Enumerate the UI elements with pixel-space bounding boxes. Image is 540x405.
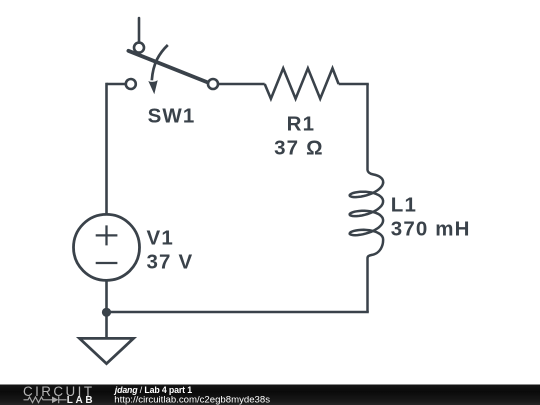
wire V1 bottom to junction xyxy=(105,280,108,312)
inductor L1 with leads xyxy=(350,84,384,312)
svg-text:http://circuitlab.com/c2egb8my: http://circuitlab.com/c2egb8myde38s xyxy=(114,394,270,405)
logo schematic glyph: wire+resistor+diode xyxy=(24,396,67,403)
footer bar xyxy=(0,384,540,405)
svg-text:L1: L1 xyxy=(391,194,417,217)
svg-text:LAB: LAB xyxy=(67,395,95,405)
wire switch right to resistor xyxy=(219,83,265,86)
V1 plus sign xyxy=(96,225,118,245)
svg-text:37 V: 37 V xyxy=(147,251,194,274)
wire top-left from switch to corner xyxy=(107,83,126,86)
V1 minus sign xyxy=(96,262,118,264)
switch throw circle left xyxy=(126,79,136,89)
svg-text:V1: V1 xyxy=(147,227,174,250)
svg-text:370 mH: 370 mH xyxy=(391,218,471,241)
resistor R1 xyxy=(265,68,339,98)
switch SW1 xyxy=(126,43,218,95)
wire switch top lead xyxy=(138,18,141,43)
wire junction to ground xyxy=(105,312,108,338)
switch actuation arrow xyxy=(152,45,168,80)
ground symbol xyxy=(80,338,134,363)
voltage source V1 xyxy=(74,214,140,280)
svg-text:37 Ω: 37 Ω xyxy=(274,137,324,160)
switch throw circle right xyxy=(208,79,218,89)
svg-text:R1: R1 xyxy=(287,113,316,136)
junction node dot xyxy=(102,308,111,317)
switch pole circle top xyxy=(134,43,144,53)
wire bottom rail xyxy=(107,311,369,314)
switch blade xyxy=(128,51,207,83)
wire resistor to top-right corner and down xyxy=(339,83,369,86)
svg-text:SW1: SW1 xyxy=(148,105,196,128)
wire left vertical to V1 xyxy=(105,83,108,215)
